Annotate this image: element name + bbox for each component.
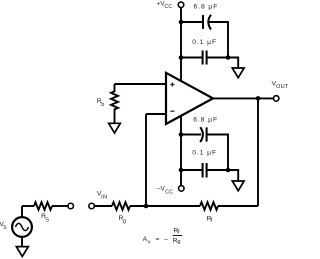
- svg-text:CC: CC: [165, 189, 173, 195]
- wire top 0.1uF branch left: [181, 57, 203, 59]
- op-amp U1: [166, 73, 213, 124]
- wire top ground stub: [228, 58, 238, 69]
- wire output: [212, 97, 273, 99]
- resistor Rg: [112, 202, 130, 210]
- wire Rg to Rf: [130, 205, 200, 207]
- svg-text:b: b: [101, 102, 104, 108]
- node inverting summing junction: [144, 204, 149, 209]
- capacitor C1 6.8uF plates: [202, 15, 204, 29]
- wire bottom 0.1uF branch left: [181, 169, 203, 171]
- wire bottom 6.8uF branch right: [207, 135, 228, 171]
- node top caps right junction: [226, 55, 231, 60]
- terminal Rs output: [68, 203, 74, 209]
- capacitor C2 0.1uF plates: [202, 51, 204, 65]
- terminal -Vcc: [179, 186, 185, 192]
- wire source bottom to ground: [21, 237, 23, 247]
- wire source top: [21, 206, 23, 217]
- svg-text:6.8 µF: 6.8 µF: [193, 116, 218, 123]
- svg-text:S: S: [3, 225, 7, 231]
- wire output feedback vertical: [257, 98, 259, 206]
- svg-text:v: v: [148, 240, 151, 246]
- wire bottom ground stub: [228, 170, 238, 181]
- node Vcc/6.8uF junction: [179, 20, 184, 25]
- svg-text:6.8 µF: 6.8 µF: [194, 3, 219, 10]
- resistor Rs: [34, 202, 52, 210]
- capacitor C4 0.1uF plates: [202, 163, 204, 178]
- wire +Vcc vertical rail: [180, 8, 182, 82]
- resistor Rb: [111, 84, 118, 124]
- svg-text:0.1 µF: 0.1 µF: [192, 150, 217, 157]
- ground (top bypass): [232, 68, 244, 78]
- svg-text:IN: IN: [101, 194, 107, 200]
- wire Rs to input terminal: [52, 205, 68, 207]
- svg-text:CC: CC: [164, 4, 172, 10]
- node -Vcc/0.1uF junction: [179, 168, 184, 173]
- wire bottom 0.1uF branch right: [207, 169, 228, 171]
- capacitor C3 6.8uF plates: [200, 127, 203, 142]
- ground (source): [16, 247, 28, 257]
- wire bottom 6.8uF branch left: [181, 134, 201, 136]
- svg-text:0.1 µF: 0.1 µF: [192, 39, 217, 46]
- terminal +Vcc: [178, 2, 184, 8]
- wire op-amp inverting input: [146, 113, 167, 115]
- node output junction: [256, 96, 261, 101]
- wire source to Rs: [22, 205, 34, 207]
- ground (bottom bypass): [232, 181, 244, 191]
- svg-text:–: –: [164, 236, 168, 243]
- svg-text:OUT: OUT: [276, 84, 288, 90]
- wire op-amp noninverting input: [115, 83, 168, 85]
- ground (Rb): [109, 123, 121, 133]
- source VS: [12, 217, 32, 237]
- svg-text:g: g: [177, 239, 180, 245]
- wire -Vcc vertical rail: [180, 115, 182, 186]
- svg-text:S: S: [45, 217, 49, 223]
- node bottom caps right junction: [226, 168, 231, 173]
- svg-text:g: g: [123, 219, 126, 225]
- node -Vcc/6.8uF junction: [179, 132, 184, 137]
- wire top 6.8uF branch right: [209, 22, 228, 58]
- svg-text:=: =: [156, 236, 160, 243]
- resistor Rf: [200, 202, 218, 210]
- wire Vin to Rg: [95, 205, 113, 207]
- label gain formula Av = -Rf/Rg: [143, 228, 183, 246]
- wire top 0.1uF branch right: [207, 57, 228, 59]
- node Vcc/0.1uF junction: [179, 55, 184, 60]
- wire feedback left vertical: [145, 114, 147, 206]
- wire top 6.8uF branch left: [181, 21, 203, 23]
- wire Rf to output corner: [218, 205, 258, 207]
- terminal Vout: [273, 96, 279, 102]
- terminal Vin: [89, 203, 95, 209]
